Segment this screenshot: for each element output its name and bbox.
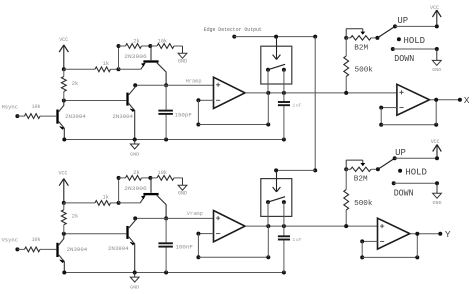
svg-text:2k: 2k [72, 81, 79, 87]
resistor 10k (Hsync input) [25, 104, 57, 119]
resistor 1k (base feed, bottom) [64, 194, 119, 205]
resistor 1k (base feed, top) [64, 61, 119, 72]
power VCC (bottom right) [431, 139, 442, 158]
capacitor 150pF [158, 85, 192, 139]
svg-text:VCC: VCC [59, 37, 68, 43]
op-amp U3 (Vramp buffer) [214, 211, 246, 242]
node Vramp junction [164, 216, 168, 220]
svg-text:HOLD: HOLD [404, 35, 426, 46]
input terminal Hsync [2, 104, 25, 118]
svg-text:GND: GND [130, 152, 139, 157]
ground (top right) [432, 49, 441, 73]
node Hramp junction (collector/cap) [164, 83, 168, 87]
node base/emitter junction bottom [117, 178, 121, 205]
wire U4 feedback [360, 234, 419, 260]
svg-text:2N3906: 2N3906 [124, 53, 147, 60]
svg-text:1uF: 1uF [292, 237, 302, 243]
svg-text:Vramp: Vramp [187, 211, 203, 217]
svg-text:1k: 1k [103, 61, 110, 67]
resistor 2k (bottom row) [117, 170, 151, 181]
svg-text:2N3904: 2N3904 [67, 246, 88, 253]
wire Vramp line [133, 211, 213, 220]
svg-text:2N3904: 2N3904 [108, 245, 129, 252]
switch S2 (edge detector controlled, bottom) [261, 170, 292, 216]
resistor 500k (top) [344, 38, 374, 95]
ground (bottom right) [433, 183, 442, 206]
contact DOWN (bottom) [392, 181, 439, 198]
ground (after 10k, bottom) [178, 178, 187, 197]
transistor Q2 2N3904 (top middle) [112, 85, 135, 139]
wire S1 left contact drop [267, 70, 269, 125]
wire ground rail (top) [62, 138, 286, 142]
svg-text:10k: 10k [158, 39, 168, 45]
op-amp U4 (Y integrator) [378, 218, 410, 249]
wire S2 right contact drop [283, 202, 285, 235]
node 2k/10k junction (base of 2N3906) [148, 44, 152, 48]
op-amp U2 (X integrator) [397, 84, 430, 115]
resistor 10k (top row) [150, 39, 182, 49]
wire U1 inverting feedback [196, 98, 270, 126]
wire Q5 base [62, 232, 126, 236]
power VCC (bottom left) [59, 170, 69, 203]
capacitor 1uF (top) [278, 102, 302, 140]
svg-text:GND: GND [178, 59, 187, 65]
capacitor 100nF [158, 218, 193, 272]
svg-text:VCC: VCC [59, 170, 68, 176]
svg-text:150pF: 150pF [175, 111, 193, 118]
svg-text:2k: 2k [133, 39, 140, 45]
svg-text:2N3904: 2N3904 [112, 113, 133, 120]
contact UP (top) [393, 15, 439, 29]
transistor 2N3906 (bottom) [119, 178, 167, 219]
svg-text:2N3904: 2N3904 [65, 113, 86, 120]
contact UP (bottom) [393, 147, 439, 160]
svg-text:10k: 10k [32, 104, 41, 110]
svg-text:GND: GND [178, 191, 187, 197]
transistor Q1 2N3904 (input, top) [56, 101, 86, 140]
output terminal Y [410, 229, 451, 240]
resistor 2k (top row) [117, 39, 151, 49]
svg-text:UP: UP [397, 15, 408, 26]
svg-text:GND: GND [432, 68, 441, 73]
potentiometer B2M (top) [346, 29, 377, 53]
svg-text:DOWN: DOWN [394, 188, 414, 199]
svg-text:Hramp: Hramp [186, 79, 202, 85]
ground (after 10k, top) [178, 46, 187, 65]
resistor 10k (Vsync input) [25, 237, 57, 252]
svg-text:Edge Detector Output: Edge Detector Output [204, 26, 262, 33]
power VCC (top right) [430, 5, 441, 26]
svg-text:1k: 1k [103, 194, 110, 200]
wire Q2 base [62, 99, 126, 103]
contact HOLD (top) [397, 35, 425, 46]
node 2k/10k junction (base of 2N3906, bottom) [148, 176, 152, 180]
node base/emitter junction top [117, 46, 121, 71]
svg-text:500k: 500k [355, 66, 374, 74]
wire U3 output line [245, 224, 378, 228]
svg-text:VCC: VCC [431, 139, 440, 145]
wire U3 inverting feedback [196, 232, 270, 260]
wire S1 right contact drop [283, 70, 285, 101]
svg-text:2k: 2k [133, 170, 140, 176]
switch lever UP/HOLD/DOWN (top) [375, 26, 395, 40]
label Edge Detector Output [204, 26, 262, 33]
node VCC1 junction [62, 67, 66, 71]
ground (below rail, top) [130, 140, 139, 158]
wire edge detector output net [232, 35, 317, 173]
svg-text:X: X [464, 95, 470, 106]
svg-text:10k: 10k [32, 237, 41, 243]
resistor 2k (vertical, bottom) [61, 203, 78, 234]
resistor 10k (bottom row) [150, 170, 182, 181]
svg-text:GND: GND [130, 286, 139, 291]
svg-text:Y: Y [445, 229, 451, 240]
contact DOWN (top) [391, 47, 439, 64]
transistor Q5 2N3904 (bottom middle) [108, 218, 135, 272]
svg-text:Hsync: Hsync [2, 104, 19, 110]
switch lever UP/HOLD/DOWN (bottom) [376, 158, 395, 171]
wire U1 output line [245, 91, 397, 95]
potentiometer B2M (bottom) [346, 160, 378, 183]
power VCC (top left) [59, 37, 68, 70]
ground (below rail, bottom) [130, 273, 139, 291]
svg-text:VCC: VCC [430, 5, 439, 11]
svg-text:UP: UP [395, 147, 406, 158]
node pot/500k junction (top) [344, 36, 348, 40]
svg-text:500k: 500k [354, 200, 373, 208]
op-amp U1 (Hramp buffer) [214, 77, 246, 108]
svg-text:DOWN: DOWN [394, 53, 414, 64]
transistor Q4 2N3904 (input, bottom) [56, 234, 87, 273]
svg-text:GND: GND [433, 201, 442, 206]
wire ground rail (bottom) [62, 271, 286, 275]
svg-text:100nF: 100nF [176, 243, 194, 250]
resistor 500k (bottom) [344, 169, 373, 228]
contact HOLD (bottom) [398, 167, 427, 178]
resistor 2k (vertical, top) [61, 69, 78, 100]
wire U2 feedback [379, 100, 438, 127]
switch S1 (edge detector controlled, top) [261, 37, 292, 84]
svg-text:B2M: B2M [354, 44, 368, 52]
svg-text:HOLD: HOLD [405, 167, 427, 178]
wire S2 left contact drop [267, 202, 269, 257]
input terminal Vsync [2, 238, 25, 252]
capacitor 1uF (bottom) [278, 236, 302, 272]
svg-text:10k: 10k [158, 170, 168, 176]
svg-text:Vsync: Vsync [2, 238, 19, 244]
output terminal X [430, 95, 470, 106]
svg-text:2k: 2k [72, 214, 79, 220]
svg-text:1uF: 1uF [292, 103, 302, 109]
transistor 2N3906 (top) [119, 46, 167, 85]
node pot/500k junction (bottom) [344, 167, 348, 171]
wire Hramp line [133, 79, 213, 88]
svg-text:2N3906: 2N3906 [124, 185, 147, 192]
node VCC2 junction [62, 201, 66, 205]
svg-text:B2M: B2M [354, 175, 368, 183]
